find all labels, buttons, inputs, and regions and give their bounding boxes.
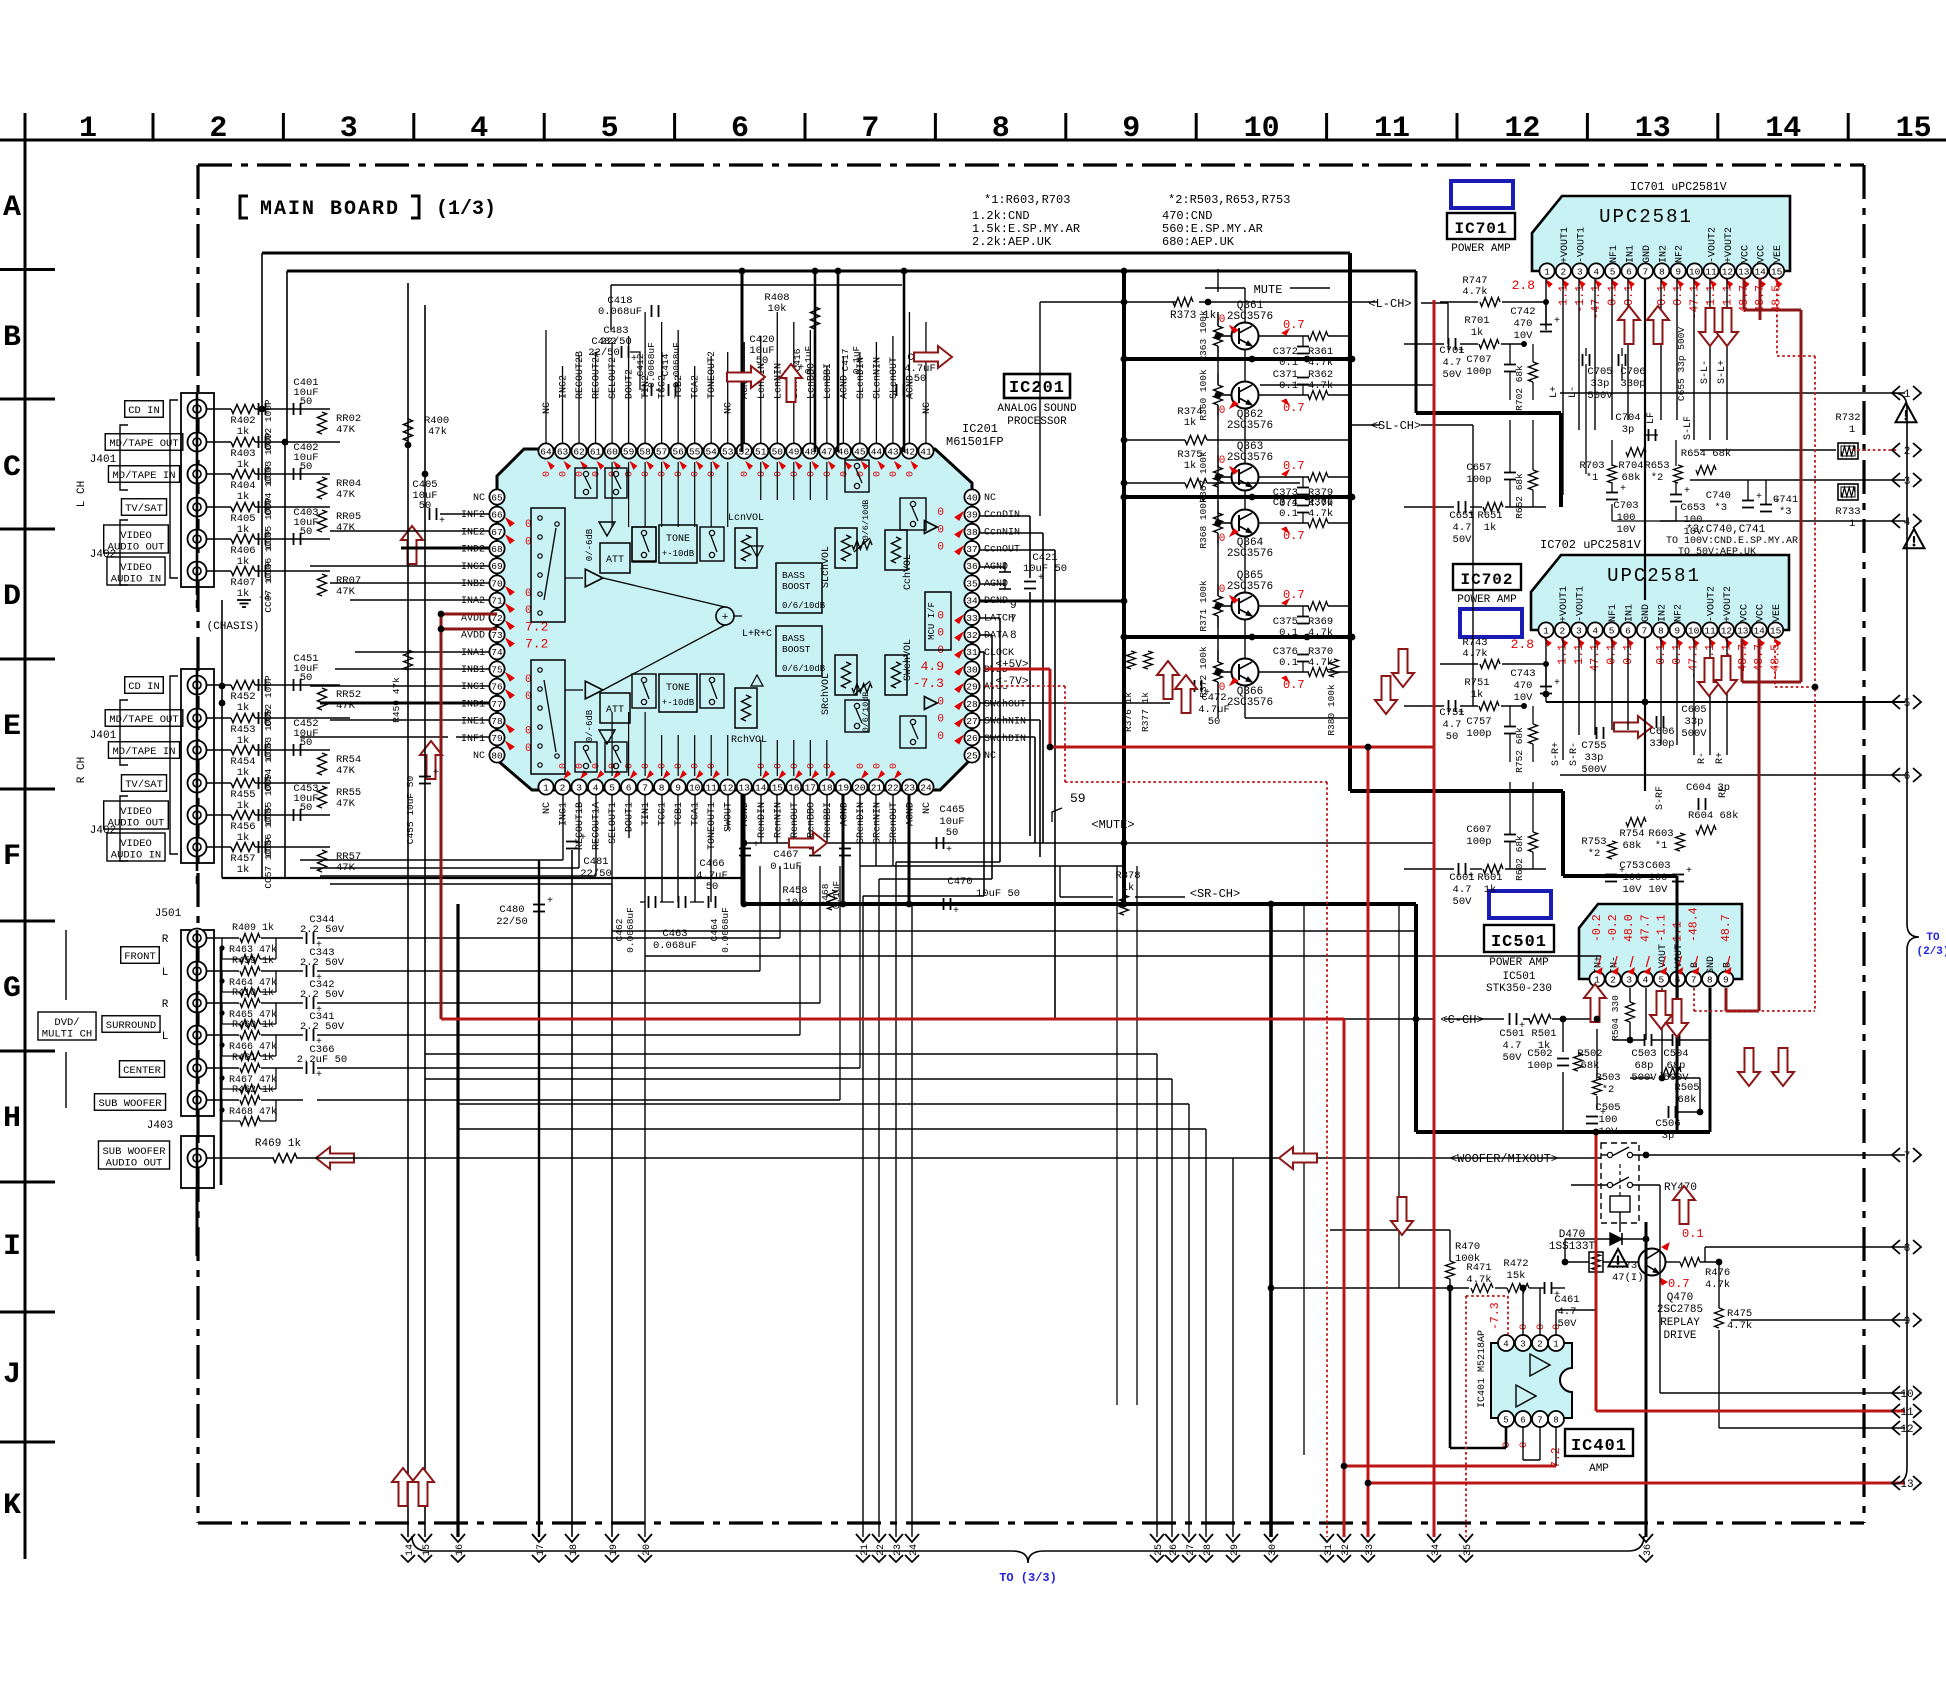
svg-text:0: 0 <box>856 763 867 769</box>
svg-text:5: 5 <box>1609 625 1615 636</box>
svg-text:CD IN: CD IN <box>128 405 160 417</box>
svg-text:D: D <box>3 580 21 614</box>
svg-text:11: 11 <box>1704 625 1716 636</box>
svg-text:3: 3 <box>1577 266 1583 277</box>
svg-text:IN1: IN1 <box>1626 245 1637 263</box>
svg-text:2.8: 2.8 <box>1512 278 1535 293</box>
svg-text:560:E.SP.MY.AR: 560:E.SP.MY.AR <box>1162 222 1263 236</box>
svg-text:100p: 100p <box>1466 474 1491 486</box>
svg-text:22: 22 <box>876 1544 887 1556</box>
svg-text:+-10dB: +-10dB <box>662 549 695 559</box>
svg-text:0: 0 <box>658 763 669 769</box>
svg-text:65: 65 <box>491 492 503 503</box>
svg-text:35: 35 <box>1463 1544 1474 1556</box>
svg-text:S-R+: S-R+ <box>1551 742 1562 766</box>
svg-text:0/6/10dB: 0/6/10dB <box>782 601 826 611</box>
svg-text:1SS133T: 1SS133T <box>1549 1241 1596 1253</box>
svg-text:27: 27 <box>966 716 977 727</box>
svg-text:50: 50 <box>946 827 959 839</box>
svg-text:47(I): 47(I) <box>1612 1272 1644 1284</box>
svg-text:R651: R651 <box>1477 510 1502 522</box>
svg-text:51: 51 <box>755 446 767 457</box>
svg-text:28: 28 <box>1203 1544 1214 1556</box>
svg-text:1: 1 <box>1553 1339 1558 1349</box>
svg-text:0.1: 0.1 <box>1279 508 1298 520</box>
svg-text:SRchVOL: SRchVOL <box>820 673 832 715</box>
svg-text:CD IN: CD IN <box>128 681 160 693</box>
svg-text:0: 0 <box>674 763 685 769</box>
svg-text:1.1: 1.1 <box>1721 285 1734 306</box>
svg-text:*3: *3 <box>1714 502 1727 514</box>
svg-text:+: + <box>946 845 952 856</box>
svg-text:NC: NC <box>542 402 553 414</box>
svg-text:INC2: INC2 <box>461 562 485 573</box>
svg-text:5: 5 <box>1610 266 1616 277</box>
svg-text:SELOUT2: SELOUT2 <box>608 357 619 399</box>
svg-text:+VOUT1: +VOUT1 <box>1560 227 1571 263</box>
svg-text:R459 1k: R459 1k <box>232 955 274 967</box>
svg-text:AUDIO OUT: AUDIO OUT <box>106 1158 163 1170</box>
svg-text:R377 1k: R377 1k <box>1140 692 1151 732</box>
svg-text:47K: 47K <box>336 586 356 598</box>
svg-text:59: 59 <box>1070 791 1086 806</box>
svg-text:NF2: NF2 <box>1675 245 1686 263</box>
svg-text:2.8: 2.8 <box>1511 637 1534 652</box>
svg-text:2.2 50V: 2.2 50V <box>300 1021 345 1033</box>
svg-text:IC501: IC501 <box>1491 933 1547 952</box>
svg-text:+: + <box>1468 871 1474 882</box>
svg-text:*2:R503,R653,R753: *2:R503,R653,R753 <box>1168 193 1290 207</box>
svg-text:0: 0 <box>1219 455 1226 467</box>
svg-text:0: 0 <box>790 471 801 477</box>
svg-text:R372 100k: R372 100k <box>1198 646 1209 698</box>
svg-text:C606: C606 <box>1649 726 1674 738</box>
svg-text:+: + <box>1684 486 1690 497</box>
svg-text:68k: 68k <box>1678 1094 1697 1106</box>
svg-text:50: 50 <box>300 396 313 408</box>
svg-text:DRIVE: DRIVE <box>1663 1330 1696 1342</box>
svg-text:R704: R704 <box>1618 460 1643 472</box>
svg-text:R504 330: R504 330 <box>1610 995 1621 1041</box>
svg-text:0: 0 <box>773 471 784 477</box>
svg-text:0.7: 0.7 <box>1668 1277 1690 1291</box>
svg-text:DOUT1: DOUT1 <box>625 802 636 832</box>
svg-text:R604 68k: R604 68k <box>1688 810 1738 822</box>
svg-text:SLcnNIN: SLcnNIN <box>872 357 883 399</box>
svg-text:12: 12 <box>1504 112 1540 146</box>
svg-text:POWER AMP: POWER AMP <box>1457 594 1517 606</box>
svg-text:C465: C465 <box>939 804 964 816</box>
svg-text:0: 0 <box>889 471 900 477</box>
svg-text:21: 21 <box>860 1544 871 1556</box>
svg-text:0: 0 <box>691 763 702 769</box>
svg-text:0: 0 <box>1551 1324 1563 1330</box>
svg-text:AGND: AGND <box>905 802 916 826</box>
svg-text:IC201: IC201 <box>1009 379 1065 398</box>
svg-text:+: + <box>906 392 912 403</box>
svg-text:4.7: 4.7 <box>1503 1040 1522 1052</box>
svg-text:TO: TO <box>1926 932 1940 944</box>
svg-text:R751: R751 <box>1464 677 1489 689</box>
svg-text:29: 29 <box>966 682 978 693</box>
svg-text:0: 0 <box>1219 584 1226 596</box>
svg-text:8: 8 <box>1553 1415 1558 1425</box>
svg-text:43: 43 <box>887 446 899 457</box>
svg-text:REPLAY: REPLAY <box>1660 1317 1700 1329</box>
svg-text:0.0068uF: 0.0068uF <box>671 342 682 388</box>
svg-text:9: 9 <box>1122 112 1140 146</box>
svg-text:C503: C503 <box>1631 1048 1656 1060</box>
svg-text:MUTE: MUTE <box>1254 283 1283 297</box>
svg-text:4.7: 4.7 <box>1453 522 1472 534</box>
svg-text:(CHASIS): (CHASIS) <box>207 621 260 633</box>
svg-text:+: + <box>1458 708 1464 719</box>
svg-text:0: 0 <box>625 471 636 477</box>
svg-text:L+R+C: L+R+C <box>742 629 772 640</box>
svg-text:70: 70 <box>491 578 503 589</box>
svg-text:1k: 1k <box>237 832 250 844</box>
svg-text:6: 6 <box>731 112 749 146</box>
svg-text:4.7k: 4.7k <box>1466 1274 1491 1286</box>
svg-text:L+: L+ <box>1549 386 1560 398</box>
svg-text:7: 7 <box>861 112 879 146</box>
svg-text:ATT: ATT <box>606 555 624 566</box>
svg-text:VEE: VEE <box>1772 604 1783 622</box>
svg-text:L-: L- <box>1568 386 1579 398</box>
svg-text:3: 3 <box>576 782 582 793</box>
svg-text:-48.4: -48.4 <box>1688 907 1701 942</box>
svg-text:-48.5: -48.5 <box>1770 644 1783 679</box>
svg-text:0.0068uF: 0.0068uF <box>646 342 657 388</box>
svg-text:F: F <box>3 840 21 874</box>
svg-text:GND: GND <box>1642 245 1653 263</box>
svg-text:67: 67 <box>491 527 502 538</box>
svg-text:1k: 1k <box>237 459 250 471</box>
svg-text:NC: NC <box>984 751 996 762</box>
svg-text:1k: 1k <box>237 800 250 812</box>
svg-text:0: 0 <box>757 471 768 477</box>
svg-text:58: 58 <box>639 446 651 457</box>
svg-text:MD/TAPE IN: MD/TAPE IN <box>112 746 175 758</box>
svg-text:55: 55 <box>689 446 701 457</box>
svg-text:VCC: VCC <box>1756 604 1767 622</box>
svg-text:2.2 50V: 2.2 50V <box>300 957 345 969</box>
svg-text:18: 18 <box>821 782 833 793</box>
svg-text:20: 20 <box>854 782 866 793</box>
svg-text:C470: C470 <box>947 876 972 888</box>
svg-text:47K: 47K <box>336 765 356 777</box>
svg-text:10: 10 <box>1689 266 1701 277</box>
svg-text:MCU I/F: MCU I/F <box>927 602 937 640</box>
svg-text:TONEOUT2: TONEOUT2 <box>707 351 718 399</box>
svg-text:17: 17 <box>536 1544 547 1556</box>
svg-text:A: A <box>3 191 21 225</box>
svg-text:0.1uF: 0.1uF <box>770 861 802 873</box>
svg-text:1k: 1k <box>237 767 250 779</box>
svg-text:39: 39 <box>966 510 978 521</box>
svg-text:34: 34 <box>1431 1544 1442 1556</box>
svg-text:C480: C480 <box>499 904 524 916</box>
svg-text:1k: 1k <box>1484 522 1497 534</box>
svg-text:7: 7 <box>1537 1415 1542 1425</box>
svg-text:<SR-CH>: <SR-CH> <box>1190 887 1240 901</box>
svg-text:IND2: IND2 <box>461 545 485 556</box>
svg-text:50: 50 <box>300 802 313 814</box>
svg-text:SUB WOOFER: SUB WOOFER <box>98 1098 162 1110</box>
svg-text:R373 1k: R373 1k <box>1170 310 1217 322</box>
svg-text:50: 50 <box>914 373 927 385</box>
svg-text:47k: 47k <box>428 426 447 438</box>
svg-text:C706: C706 <box>1620 366 1645 378</box>
svg-text:17: 17 <box>805 782 816 793</box>
svg-text:BOOST: BOOST <box>782 581 811 592</box>
svg-text:22/50: 22/50 <box>600 336 632 348</box>
svg-text:+: + <box>1686 866 1692 877</box>
svg-text:*3: *3 <box>1779 506 1792 518</box>
svg-text:0: 0 <box>1518 1324 1530 1330</box>
svg-text:R732: R732 <box>1835 412 1860 424</box>
svg-text:4.7uF: 4.7uF <box>1198 704 1230 716</box>
svg-text:4.7: 4.7 <box>1558 1306 1577 1318</box>
svg-text:24: 24 <box>920 782 932 793</box>
svg-text:+VOUT2: +VOUT2 <box>1723 586 1734 622</box>
svg-text:<C-CH>: <C-CH> <box>1440 1013 1483 1027</box>
svg-text:R371 100k: R371 100k <box>1198 580 1209 632</box>
svg-text:R752 68k: R752 68k <box>1514 727 1525 773</box>
svg-text:10uF 50: 10uF 50 <box>976 888 1020 900</box>
svg-text:50V: 50V <box>1453 534 1473 546</box>
svg-text:R466 47k: R466 47k <box>229 1041 277 1053</box>
svg-text:15k: 15k <box>1507 1270 1526 1282</box>
svg-text:R653: R653 <box>1644 460 1669 472</box>
svg-text:LcnNIN: LcnNIN <box>773 363 784 399</box>
svg-text:C501: C501 <box>1499 1028 1524 1040</box>
svg-text:74: 74 <box>491 647 503 658</box>
svg-text:4.7: 4.7 <box>1453 884 1472 896</box>
svg-text:0: 0 <box>872 471 883 477</box>
svg-text:2SC3576: 2SC3576 <box>1227 420 1273 432</box>
svg-text:1: 1 <box>1849 424 1855 436</box>
svg-text:23: 23 <box>893 1544 904 1556</box>
svg-text:R461 1k: R461 1k <box>232 1052 274 1064</box>
svg-text:R601: R601 <box>1477 872 1502 884</box>
svg-text:0: 0 <box>757 763 768 769</box>
svg-text:C417: C417 <box>840 349 851 372</box>
svg-text:ING1: ING1 <box>559 802 570 826</box>
svg-text:C743: C743 <box>1510 668 1535 680</box>
svg-text:R754: R754 <box>1619 828 1644 840</box>
svg-text:RECOUT1A: RECOUT1A <box>592 802 603 850</box>
svg-text:0: 0 <box>823 471 834 477</box>
svg-text:AMP: AMP <box>1589 1463 1609 1475</box>
svg-text:50: 50 <box>300 672 313 684</box>
svg-text:18: 18 <box>569 1544 580 1556</box>
svg-text:UPC2581: UPC2581 <box>1599 206 1693 228</box>
svg-text:47: 47 <box>821 446 832 457</box>
svg-text:16: 16 <box>788 782 800 793</box>
svg-text:L CH: L CH <box>76 481 88 507</box>
svg-text:33: 33 <box>966 613 978 624</box>
svg-text:FRONT: FRONT <box>124 951 156 963</box>
svg-text:+: + <box>1756 492 1762 503</box>
svg-text:R468 47k: R468 47k <box>229 1106 277 1118</box>
svg-text:C466: C466 <box>699 858 724 870</box>
svg-text:B: B <box>3 321 21 355</box>
svg-text:ATT: ATT <box>606 705 624 716</box>
svg-text:1: 1 <box>79 112 97 146</box>
svg-text:POWER AMP: POWER AMP <box>1451 243 1511 255</box>
svg-text:0.0068uF: 0.0068uF <box>720 907 731 953</box>
svg-text:ING2: ING2 <box>559 375 570 399</box>
svg-text:1k: 1k <box>237 491 250 503</box>
svg-text:+: + <box>316 1070 322 1081</box>
svg-text:10V: 10V <box>1649 884 1669 896</box>
svg-text:NC: NC <box>724 402 735 414</box>
svg-text:31: 31 <box>966 647 978 658</box>
svg-text:AVDD: AVDD <box>461 631 485 642</box>
svg-text:47K: 47K <box>336 798 356 810</box>
svg-text:SWchNIN: SWchNIN <box>984 716 1026 728</box>
svg-text:0: 0 <box>1535 1324 1547 1330</box>
svg-text:15: 15 <box>1771 266 1783 277</box>
svg-text:1k: 1k <box>237 588 250 600</box>
svg-text:2.2 50V: 2.2 50V <box>300 989 345 1001</box>
svg-text:CchVOL: CchVOL <box>902 554 914 590</box>
svg-text:33: 33 <box>1365 1544 1376 1556</box>
svg-text:IN2: IN2 <box>1657 604 1668 622</box>
svg-text:IN2: IN2 <box>1658 245 1669 263</box>
svg-text:1k: 1k <box>237 864 250 876</box>
svg-text:RcnBBI: RcnBBI <box>823 802 834 838</box>
svg-text:*1:R603,R703: *1:R603,R703 <box>984 193 1070 207</box>
svg-text:IC701 uPC2581V: IC701 uPC2581V <box>1630 181 1727 194</box>
svg-text:R463 47k: R463 47k <box>229 944 277 956</box>
svg-text:SWchVOL: SWchVOL <box>902 639 914 681</box>
svg-text:100p: 100p <box>1466 366 1491 378</box>
svg-text:SWchDIN: SWchDIN <box>984 733 1026 745</box>
svg-text:44: 44 <box>871 446 883 457</box>
svg-text:SLcnOUT: SLcnOUT <box>889 357 900 399</box>
svg-text:50V: 50V <box>1443 369 1463 381</box>
svg-text:<SL-CH>: <SL-CH> <box>1371 419 1421 433</box>
svg-text:Q470: Q470 <box>1667 1292 1693 1304</box>
svg-text:9: 9 <box>1674 625 1680 636</box>
svg-text:IC401 M5218AP: IC401 M5218AP <box>1477 1330 1488 1408</box>
svg-text:C740: C740 <box>1706 490 1731 502</box>
svg-text:+: + <box>1600 1108 1606 1119</box>
svg-text:0: 0 <box>872 763 883 769</box>
svg-text:+: + <box>1554 678 1560 689</box>
svg-text:36: 36 <box>966 561 978 572</box>
svg-text:78: 78 <box>491 716 503 727</box>
svg-text:AGND: AGND <box>839 375 850 399</box>
svg-text:0.1: 0.1 <box>1656 285 1669 306</box>
svg-text:5: 5 <box>609 782 615 793</box>
svg-text:C657: C657 <box>1466 462 1491 474</box>
svg-text:TCA2: TCA2 <box>691 375 702 399</box>
svg-text:31: 31 <box>1324 1544 1335 1556</box>
svg-text:4: 4 <box>1642 974 1648 985</box>
svg-text:IC701: IC701 <box>1454 220 1507 238</box>
svg-text:INF2: INF2 <box>461 510 485 521</box>
svg-text:48.0: 48.0 <box>1623 914 1636 942</box>
svg-text:R462 1k: R462 1k <box>232 1084 274 1096</box>
svg-text:IC702: IC702 <box>1460 571 1513 589</box>
svg-text:73: 73 <box>491 630 503 641</box>
svg-text:TO (3/3): TO (3/3) <box>999 1571 1057 1585</box>
svg-text:0: 0 <box>707 763 718 769</box>
svg-text:48.7: 48.7 <box>1720 914 1733 942</box>
svg-text:BOOST: BOOST <box>782 644 811 655</box>
svg-text:11: 11 <box>705 782 717 793</box>
svg-text:80: 80 <box>491 750 503 761</box>
svg-text:41: 41 <box>920 446 932 457</box>
svg-text:52: 52 <box>739 446 751 457</box>
svg-text:<MUTE>: <MUTE> <box>1091 818 1134 832</box>
svg-text:LF: LF <box>1646 412 1657 424</box>
svg-text:6: 6 <box>1626 266 1632 277</box>
svg-text:R458: R458 <box>782 885 807 897</box>
svg-text:7: 7 <box>1643 266 1649 277</box>
svg-text:0: 0 <box>707 471 718 477</box>
svg-text:MAIN BOARD: MAIN BOARD <box>260 198 400 221</box>
svg-text:DOUT2: DOUT2 <box>625 369 636 399</box>
svg-text:1.2k:CND: 1.2k:CND <box>972 209 1030 223</box>
svg-text:INB2: INB2 <box>461 579 485 590</box>
svg-text:0: 0 <box>937 507 944 519</box>
svg-text:7: 7 <box>1642 625 1648 636</box>
svg-text:37: 37 <box>966 544 977 555</box>
svg-text:2: 2 <box>1610 974 1616 985</box>
svg-text:RcnOUT: RcnOUT <box>790 802 801 838</box>
svg-text:4.7: 4.7 <box>1443 719 1462 731</box>
svg-text:IC401: IC401 <box>1571 1437 1627 1456</box>
svg-text:C705: C705 <box>1587 366 1612 378</box>
svg-text:3: 3 <box>1626 974 1632 985</box>
svg-text:68k: 68k <box>1622 472 1641 484</box>
svg-text:47K: 47K <box>336 424 356 436</box>
svg-text:R CH: R CH <box>76 757 88 783</box>
svg-text:NC: NC <box>473 751 485 762</box>
svg-text:12: 12 <box>722 782 734 793</box>
svg-text:R: R <box>162 934 169 946</box>
svg-text:-47.1: -47.1 <box>1590 285 1603 320</box>
svg-text:9: 9 <box>1675 266 1681 277</box>
svg-text:8: 8 <box>1659 266 1665 277</box>
svg-text:<L-CH>: <L-CH> <box>1368 297 1411 311</box>
svg-text:MD/TAPE IN: MD/TAPE IN <box>112 470 175 482</box>
svg-text:0: 0 <box>658 471 669 477</box>
svg-text:0: 0 <box>905 471 916 477</box>
svg-text:R753: R753 <box>1581 836 1606 848</box>
svg-text:4.9: 4.9 <box>921 659 944 674</box>
svg-text:C607: C607 <box>1466 824 1491 836</box>
svg-text:0.1: 0.1 <box>1672 285 1685 306</box>
svg-text:NC: NC <box>542 802 553 814</box>
svg-text:4.7k: 4.7k <box>1727 1320 1752 1332</box>
svg-text:63: 63 <box>557 446 569 457</box>
svg-text:2: 2 <box>560 782 566 793</box>
svg-text:TONEOUT1: TONEOUT1 <box>707 802 718 850</box>
svg-text:-VOUT2: -VOUT2 <box>1708 227 1719 263</box>
svg-text:47K: 47K <box>336 522 356 534</box>
svg-text:-7.3: -7.3 <box>1489 1302 1502 1330</box>
svg-text:0.7: 0.7 <box>1283 459 1305 473</box>
svg-text:NC: NC <box>984 493 996 504</box>
svg-text:NF1: NF1 <box>1609 245 1620 263</box>
svg-text:+: + <box>439 516 445 527</box>
svg-text:0/6/10dB: 0/6/10dB <box>861 692 871 733</box>
